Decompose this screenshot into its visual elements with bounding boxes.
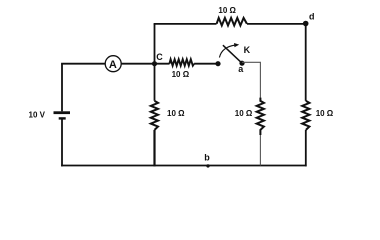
svg-text:10 V: 10 V bbox=[29, 110, 46, 119]
wire bottom horizontal bbox=[61, 165, 307, 167]
wire node C down to resistor bbox=[154, 64, 156, 101]
svg-text:A: A bbox=[109, 59, 117, 71]
svg-text:C: C bbox=[156, 52, 163, 62]
wire ammeter to node C bbox=[121, 63, 170, 65]
wire top left segment bbox=[154, 23, 217, 25]
battery 10V bbox=[54, 111, 71, 119]
resistor R5 10 ohm (left vertical under C) bbox=[151, 101, 185, 130]
switch K contact dot (left) bbox=[215, 61, 220, 66]
switch K blade bbox=[223, 45, 242, 63]
node C bbox=[152, 52, 163, 66]
resistor R4 10 ohm (right vertical) bbox=[302, 101, 334, 130]
svg-text:K: K bbox=[244, 45, 251, 55]
resistor R3 10 ohm (middle vertical) bbox=[235, 98, 264, 135]
node b bbox=[204, 153, 210, 168]
ammeter A1 bbox=[105, 56, 121, 72]
wire node C up to top bbox=[154, 24, 156, 64]
wire middle resistor to bottom (thin) bbox=[259, 135, 261, 166]
svg-text:10 Ω: 10 Ω bbox=[235, 109, 253, 118]
svg-text:10 Ω: 10 Ω bbox=[167, 109, 185, 118]
svg-text:b: b bbox=[204, 153, 210, 163]
wire resistor R2 to switch contact bbox=[194, 63, 218, 65]
resistor R2 10 ohm (middle horizontal after C) bbox=[169, 59, 194, 79]
node a bbox=[238, 61, 244, 74]
svg-text:10 Ω: 10 Ω bbox=[172, 70, 190, 79]
wire node d down to resistor bbox=[305, 24, 307, 101]
wire right resistor to bottom bbox=[305, 130, 307, 167]
resistor R1 10 ohm (top horizontal) bbox=[217, 6, 247, 25]
wire top right segment bbox=[247, 23, 306, 25]
svg-text:10 Ω: 10 Ω bbox=[218, 6, 236, 15]
svg-text:10 Ω: 10 Ω bbox=[316, 109, 334, 118]
switch K motion arrow bbox=[219, 43, 239, 58]
wire node a to middle branch corner (thin) bbox=[242, 62, 260, 98]
svg-text:d: d bbox=[309, 11, 315, 21]
wire middle horizontal (battery to ammeter) bbox=[61, 63, 105, 65]
node d bbox=[303, 11, 315, 26]
wire left resistor to bottom bbox=[153, 130, 155, 167]
wire left vertical (battery branch) bbox=[61, 64, 63, 167]
